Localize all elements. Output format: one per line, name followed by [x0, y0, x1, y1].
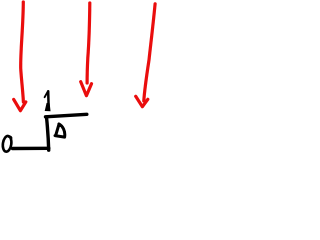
- label 1: [45, 91, 51, 111]
- red arrow 1 (left): [14, 2, 26, 111]
- wire top horizontal: [46, 114, 87, 116]
- wire bottom horizontal: [13, 147, 49, 151]
- wire vertical step: [47, 117, 49, 150]
- red arrow 2 (middle): [81, 3, 92, 96]
- label 0: [2, 135, 13, 152]
- black step function: [13, 114, 87, 150]
- red arrow 3 (right): [136, 4, 155, 107]
- label delta: [55, 124, 65, 137]
